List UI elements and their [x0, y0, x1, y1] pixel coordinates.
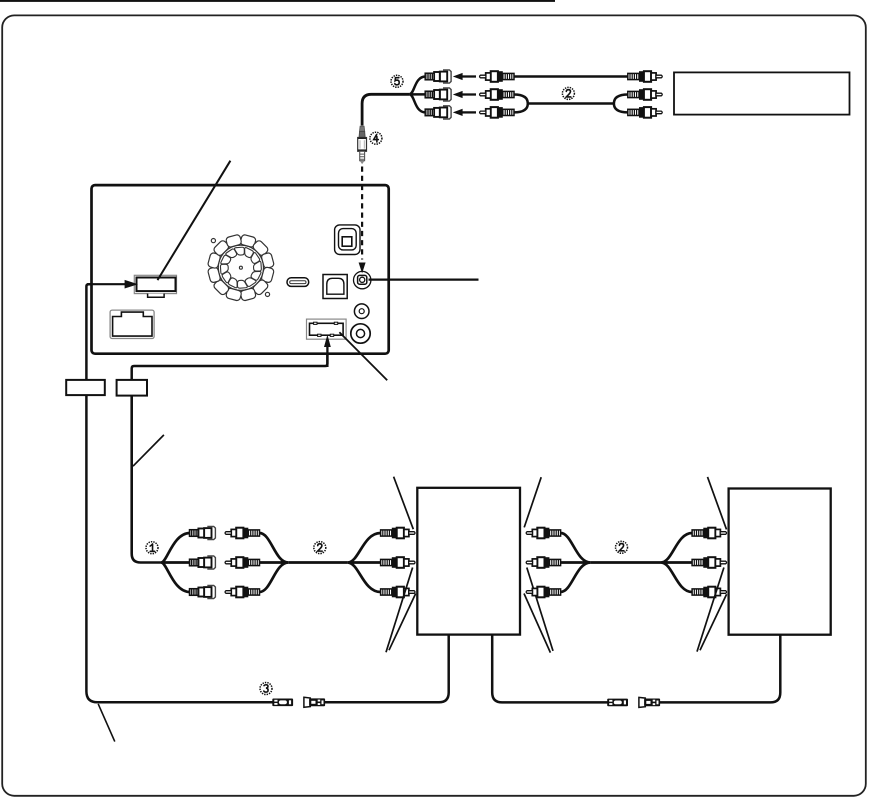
label 2 (RCA cable left)	[314, 542, 326, 554]
bullet connector pair 2 female	[639, 697, 660, 707]
arrow into jack J5a	[453, 73, 476, 80]
cable 2a left branches	[260, 533, 289, 592]
harness 5 branch top	[409, 77, 425, 95]
HDMI port	[287, 278, 309, 287]
arrow into jack J5c	[453, 109, 476, 116]
harness 5 branch bottom	[409, 94, 425, 112]
RCA plug P2a left	[480, 71, 514, 82]
harness 1 branch bottom	[161, 563, 190, 593]
RCA output jack large	[351, 324, 370, 343]
RCA plug P2h out of monitor 1	[526, 557, 560, 568]
leader line monitor 1 top-right	[524, 477, 541, 527]
main unit rear panel box	[92, 185, 389, 354]
harness 1 branch middle	[161, 561, 190, 564]
top cable rows 2-3 right loop	[614, 95, 628, 113]
antenna square socket	[335, 225, 360, 255]
RCA plug P2j into monitor 2	[692, 528, 726, 539]
dashed insertion line	[361, 167, 363, 260]
cable 2b middle run	[591, 561, 661, 564]
leader line to wire W1	[98, 704, 115, 742]
arrow into connector C1	[87, 280, 138, 289]
RCA plug P2k into monitor 2	[692, 557, 726, 568]
connector C2 (harness socket)	[110, 310, 154, 338]
cable of harness 5	[362, 94, 409, 125]
leader line monitor 1 top-left	[394, 477, 414, 530]
RCA plug P2i out of monitor 1	[526, 587, 560, 598]
leader line into connector C1	[158, 161, 231, 280]
3.5mm AV plug P4	[358, 126, 367, 164]
top cable middle run	[528, 102, 614, 105]
arrow into jack J1	[359, 263, 366, 274]
RCA jack J1a	[190, 526, 216, 539]
RCA plug P2g out of monitor 1	[526, 528, 560, 539]
connector C3 (AV interface socket)	[307, 319, 347, 339]
cable 2a right branches	[348, 533, 381, 592]
arrow into jack J5b	[453, 91, 476, 98]
leader line monitor 1 bottom-right a	[527, 568, 553, 651]
bullet connector pair 1 female	[304, 697, 325, 707]
RCA plug P1a	[225, 528, 259, 539]
label 2 (RCA cable top)	[562, 87, 574, 99]
RCA plug P2e right	[628, 89, 662, 100]
harness 1 branch top	[161, 533, 190, 563]
label 5 (AV extension harness)	[391, 75, 403, 87]
inline fuse box R1 on wire W1	[66, 380, 105, 395]
RCA output jack small	[354, 304, 369, 319]
cable 2b right branches	[661, 533, 692, 592]
wire W2 from main-unit connector C3 down to RCA harness 1	[132, 347, 328, 380]
leader line to wire W2	[133, 435, 164, 466]
RCA plug P1f into monitor 1	[381, 587, 415, 598]
connector C1 (display output port)	[134, 275, 176, 297]
leader line monitor 2 bottom-left a	[697, 568, 724, 652]
title underline bar	[0, 0, 555, 2]
USB type-B port	[323, 275, 347, 299]
RCA jack J1b	[190, 556, 216, 569]
device box top right	[674, 72, 850, 114]
RCA plug P1d into monitor 1	[381, 528, 415, 539]
fan screw bottom-right	[265, 292, 269, 296]
RCA jack J5a	[425, 70, 451, 83]
label 1 (AV output harness)	[146, 542, 158, 554]
bullet connector pair 2 male	[607, 699, 628, 707]
RCA plug P2c left	[480, 107, 514, 118]
label 2 (RCA cable right)	[616, 541, 628, 553]
RCA plug P1b	[225, 557, 259, 568]
inline fuse box R2 on wire W2	[117, 380, 147, 396]
leader line monitor 1 bottom-left b	[389, 594, 416, 651]
monitor 2 box	[729, 489, 831, 635]
wire W3 from monitor 1 right leg along bottom to monitor 2 leg	[492, 634, 617, 703]
cooling fan	[207, 234, 274, 301]
monitor 1 box	[417, 488, 520, 635]
RCA plug P1e into monitor 1	[381, 557, 415, 568]
wire W1 from main-unit connector C1 down and along bottom to monitor 1 left leg	[86, 284, 283, 702]
leader line monitor 2 top-left	[708, 477, 727, 530]
RCA plug P2b left	[480, 89, 514, 100]
leader line monitor 2 bottom-left b	[700, 594, 727, 650]
cable 2a middle run	[288, 561, 347, 564]
label 4 (3.5mm plug)	[370, 132, 382, 144]
harness 5 branch middle	[409, 93, 425, 96]
RCA jack J5c	[425, 106, 451, 119]
leader line monitor 1 bottom-right b	[524, 594, 550, 653]
cable 2b left branches	[561, 533, 591, 592]
AV input mini jack J1	[354, 271, 371, 288]
RCA plug P1c	[225, 587, 259, 598]
leader line from jack J1	[369, 278, 479, 280]
RCA jack J1c	[190, 585, 216, 598]
leader line monitor 1 bottom-left a	[386, 568, 413, 653]
label 3 (extension lead)	[260, 683, 272, 695]
RCA plug P2f right	[628, 107, 662, 118]
top cable rows 2-3 left loop	[514, 95, 528, 113]
RCA plug P2l into monitor 2	[692, 587, 726, 598]
fan screw top-left	[211, 239, 215, 243]
top cable row 1	[514, 75, 628, 78]
RCA jack J5b	[425, 88, 451, 101]
leader line from connector C3	[339, 332, 387, 380]
bullet connector pair 1 male	[272, 699, 293, 707]
RCA plug P2d right	[628, 71, 662, 82]
arrow into connector C3	[324, 335, 331, 367]
